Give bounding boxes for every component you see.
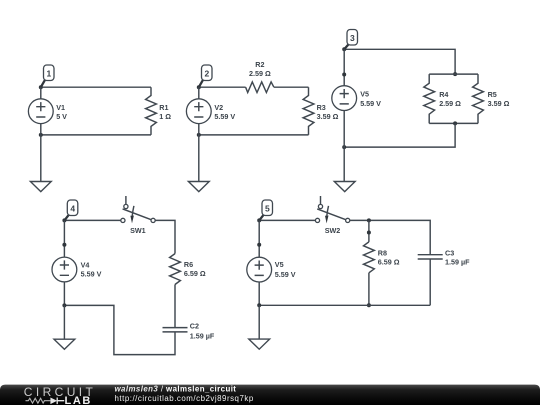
wire node2 to R2 <box>199 86 246 88</box>
resistor R2 <box>246 60 274 93</box>
node 3 label <box>344 30 357 50</box>
svg-text:R3: R3 <box>317 103 326 112</box>
svg-text:3.59 Ω: 3.59 Ω <box>317 112 339 121</box>
ground C5 <box>249 305 270 349</box>
svg-text:V4: V4 <box>81 261 90 270</box>
wire bottom C2 <box>199 134 309 136</box>
svg-text:R4: R4 <box>439 90 448 99</box>
svg-text:2: 2 <box>205 68 210 78</box>
wire bottom C4 <box>64 305 175 354</box>
svg-text:4: 4 <box>70 203 75 213</box>
wire R2 to R3 <box>274 86 309 88</box>
wire bottom C1 <box>41 134 151 136</box>
svg-text:SW1: SW1 <box>130 226 146 235</box>
wire SW2 to C3 corner <box>350 220 430 254</box>
voltage source V2 <box>186 87 235 135</box>
svg-text:http://circuitlab.com/cb2vj89r: http://circuitlab.com/cb2vj89rsq7kp <box>115 394 254 403</box>
wire junction to R8 <box>368 220 370 242</box>
svg-text:6.59 Ω: 6.59 Ω <box>184 269 206 278</box>
resistor R6 <box>170 254 206 285</box>
wire bottom C5 <box>259 304 430 306</box>
svg-text:C3: C3 <box>445 248 454 257</box>
node C junction dot <box>197 85 201 89</box>
node E junction dot <box>342 47 346 51</box>
svg-text:1 Ω: 1 Ω <box>159 112 171 121</box>
svg-text:V5: V5 <box>275 260 284 269</box>
svg-text:5.59 V: 5.59 V <box>214 112 235 121</box>
node 1 label <box>41 65 54 87</box>
svg-text:5.59 V: 5.59 V <box>360 99 381 108</box>
ground C4 <box>54 305 75 349</box>
svg-text:1.59 µF: 1.59 µF <box>445 257 470 266</box>
logo resistor zigzag <box>26 398 51 403</box>
node 5 label <box>259 200 272 220</box>
wire top C1 <box>41 86 151 88</box>
node L junction dot <box>367 218 371 222</box>
svg-text:1: 1 <box>47 68 52 78</box>
svg-text:5: 5 <box>265 203 270 213</box>
wire SW1 to R6 <box>155 220 175 253</box>
svg-text:R2: R2 <box>255 60 264 69</box>
wire parallel bottom bar <box>429 122 478 124</box>
switch SW1 <box>121 196 155 235</box>
svg-text:C2: C2 <box>190 322 199 331</box>
node H junction dot <box>342 145 346 149</box>
resistor R4 <box>424 74 461 123</box>
svg-text:V2: V2 <box>214 103 223 112</box>
node 2 label <box>199 65 212 87</box>
svg-text:5 V: 5 V <box>56 112 67 121</box>
svg-text:2.59 Ω: 2.59 Ω <box>439 99 461 108</box>
node G junction dot <box>453 121 457 125</box>
svg-text:3: 3 <box>350 33 355 43</box>
node M junction dot <box>367 231 371 235</box>
wire C3 to bottom <box>429 259 431 305</box>
wire R8 to bottom <box>368 273 370 306</box>
node F junction dot <box>453 72 457 76</box>
resistor R8 <box>364 242 400 273</box>
svg-text:R6: R6 <box>184 260 193 269</box>
capacitor C2 <box>163 322 215 341</box>
node J junction dot <box>62 303 66 307</box>
svg-text:R8: R8 <box>378 248 387 257</box>
logo diode <box>50 398 57 405</box>
svg-text:2.59 Ω: 2.59 Ω <box>249 69 271 78</box>
ground C2 <box>188 135 209 192</box>
svg-text:6.59 Ω: 6.59 Ω <box>378 257 400 266</box>
svg-text:3.59 Ω: 3.59 Ω <box>488 99 510 108</box>
voltage source V4 <box>52 220 102 305</box>
svg-text:R5: R5 <box>488 90 497 99</box>
voltage source V1 <box>28 87 67 135</box>
svg-text:SW2: SW2 <box>325 226 341 235</box>
svg-text:V1: V1 <box>56 103 65 112</box>
wire R6 to C2 <box>174 285 176 328</box>
wire top C3 <box>344 49 455 74</box>
voltage source V5 (bottom) <box>247 220 296 305</box>
node A junction dot <box>39 85 43 89</box>
node 4 label <box>64 200 77 220</box>
footer bar <box>0 385 540 405</box>
wire bottom C3 <box>344 123 455 147</box>
svg-text:5.59 V: 5.59 V <box>81 270 102 279</box>
voltage source V5 (top) <box>332 49 381 147</box>
ground C1 <box>30 135 51 192</box>
node D junction dot <box>197 133 201 137</box>
svg-text:5.59 V: 5.59 V <box>275 270 296 279</box>
svg-text:LAB: LAB <box>65 395 92 405</box>
wire parallel top bar <box>429 73 478 75</box>
switch SW2 <box>315 196 349 235</box>
resistor R3 <box>303 87 338 135</box>
wire node4 to SW1 <box>64 219 120 221</box>
svg-text:walmslen3 / walmslen_circuit: walmslen3 / walmslen_circuit <box>115 384 237 393</box>
node I junction dot <box>62 218 66 222</box>
svg-text:R1: R1 <box>159 103 168 112</box>
svg-text:1.59 µF: 1.59 µF <box>190 331 215 340</box>
node N junction dot <box>367 303 371 307</box>
resistor R1 <box>146 87 172 135</box>
resistor R5 <box>473 74 510 123</box>
wire node5 to SW2 <box>259 219 315 221</box>
capacitor C3 <box>418 248 470 266</box>
node K junction dot <box>257 218 261 222</box>
node O junction dot <box>257 303 261 307</box>
svg-text:V5: V5 <box>360 90 369 99</box>
node B junction dot <box>39 133 43 137</box>
ground C3 <box>334 147 355 192</box>
